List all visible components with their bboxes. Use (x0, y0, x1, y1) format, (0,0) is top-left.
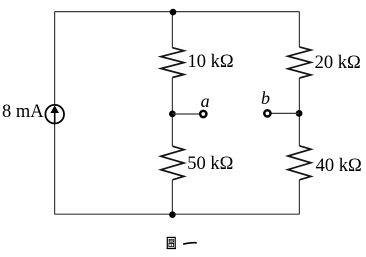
current source arrow stem (54, 112, 56, 123)
current source arrow head (50, 105, 59, 113)
svg-text:40 kΩ: 40 kΩ (316, 156, 362, 176)
wire right vertical top (298, 12, 300, 47)
wire node b stub (271, 112, 300, 114)
resistor R3 50k zigzag (161, 146, 184, 180)
wire middle branch top (171, 12, 173, 48)
junction dot bottom (169, 211, 176, 218)
svg-text:b: b (261, 88, 270, 108)
junction dot top (170, 9, 177, 16)
resistor R2 20k zigzag (288, 47, 311, 78)
node dot middle branch (169, 111, 176, 118)
terminal b open circle (264, 110, 270, 116)
wire node a stub (172, 113, 200, 115)
caption glyph tu (figure) (167, 237, 176, 248)
terminal a open circle (200, 111, 206, 117)
wire bottom horizontal (55, 213, 300, 215)
resistor R1 10k zigzag (161, 48, 184, 78)
svg-text:a: a (201, 91, 210, 111)
svg-text:8 mA: 8 mA (2, 102, 44, 122)
wire middle branch bottom (171, 180, 173, 214)
caption glyph yi (one) (183, 242, 197, 245)
current source I1 circle (45, 105, 64, 124)
svg-text:20 kΩ: 20 kΩ (315, 53, 361, 73)
resistor R4 40k zigzag (288, 146, 311, 180)
wire right vertical bottom (298, 180, 300, 214)
svg-text:10 kΩ: 10 kΩ (188, 52, 234, 72)
node dot right branch (296, 110, 303, 117)
wire right vertical mid (298, 78, 300, 146)
wire middle branch mid (171, 78, 173, 147)
svg-text:50 kΩ: 50 kΩ (187, 154, 233, 174)
wire top horizontal (55, 11, 300, 13)
wire left vertical (54, 12, 56, 215)
